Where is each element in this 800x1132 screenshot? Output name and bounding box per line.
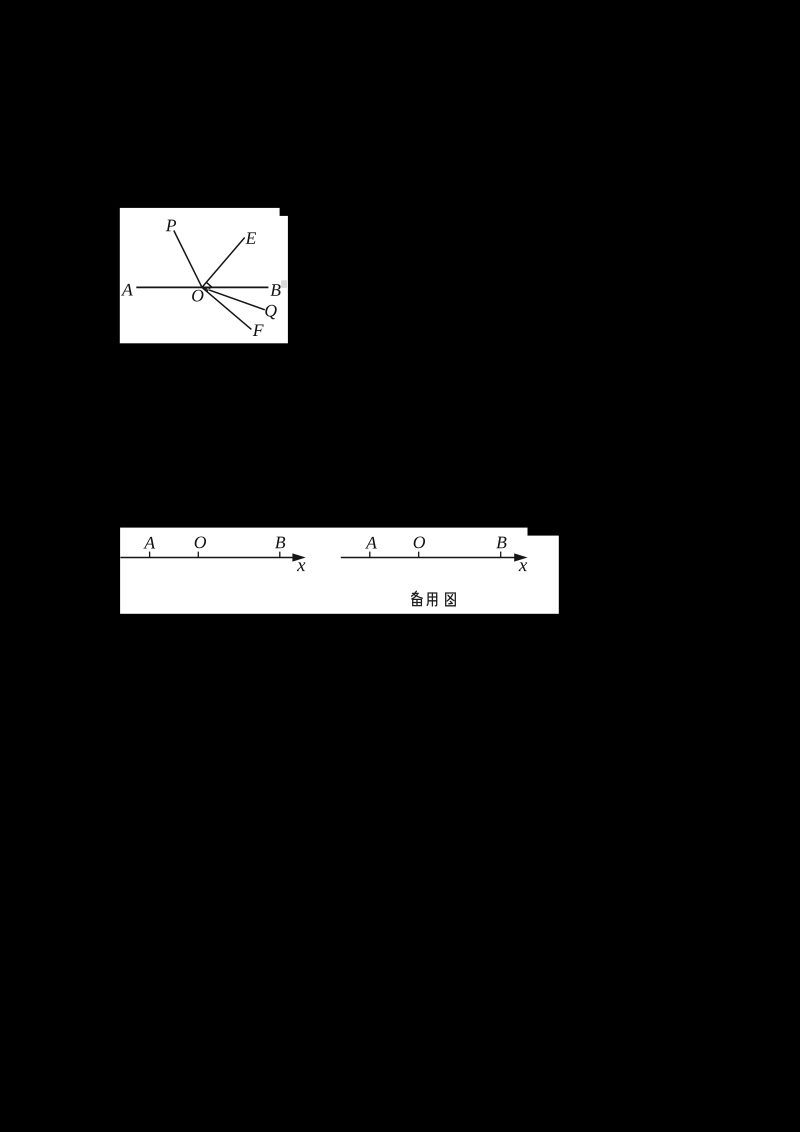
caption char tu [446, 593, 456, 606]
axis1 label A [143, 537, 155, 549]
dark wedge at O [202, 287, 207, 291]
caption bei-yong-tu drawn as strokes [412, 591, 456, 606]
axis2 label B [496, 537, 506, 549]
axis2 label x [519, 562, 528, 571]
tick B2 [500, 552, 502, 558]
tick A1 [149, 552, 151, 558]
node label A [121, 284, 133, 296]
axis1 label O [195, 536, 206, 548]
node label B [270, 284, 280, 296]
right angle mark at O [206, 282, 211, 291]
tick A2 [369, 552, 371, 558]
figure 1 panel (white, stepped top-right corner) [120, 208, 288, 343]
figure 2 panel (white strip, stepped top-right corner) [120, 528, 559, 614]
caption char yong [427, 593, 437, 606]
node label Q [265, 305, 276, 320]
axis2 label A [365, 537, 377, 549]
node label F [253, 324, 264, 336]
wire ray OF [202, 287, 251, 329]
node label P [166, 220, 176, 232]
number line 1 axis [120, 557, 293, 559]
number line 2 axis [341, 557, 516, 559]
wire ray OE [202, 238, 245, 288]
tick O2 [418, 552, 420, 558]
axis1 label B [275, 537, 285, 549]
wire ray OP [174, 231, 202, 288]
wire line AB [136, 286, 268, 288]
caption char bei [412, 591, 423, 605]
axis2 label O [414, 536, 425, 548]
gray patch in mark [207, 289, 211, 291]
node label O [192, 290, 203, 302]
tick B1 [279, 552, 281, 558]
node label E [245, 232, 256, 244]
wire ray OQ [202, 287, 265, 309]
arrowhead x1 [292, 553, 305, 561]
arrowhead x2 [514, 553, 527, 561]
axis1 label x [297, 562, 306, 571]
gray handle square [281, 280, 287, 288]
tick O1 [197, 552, 199, 558]
